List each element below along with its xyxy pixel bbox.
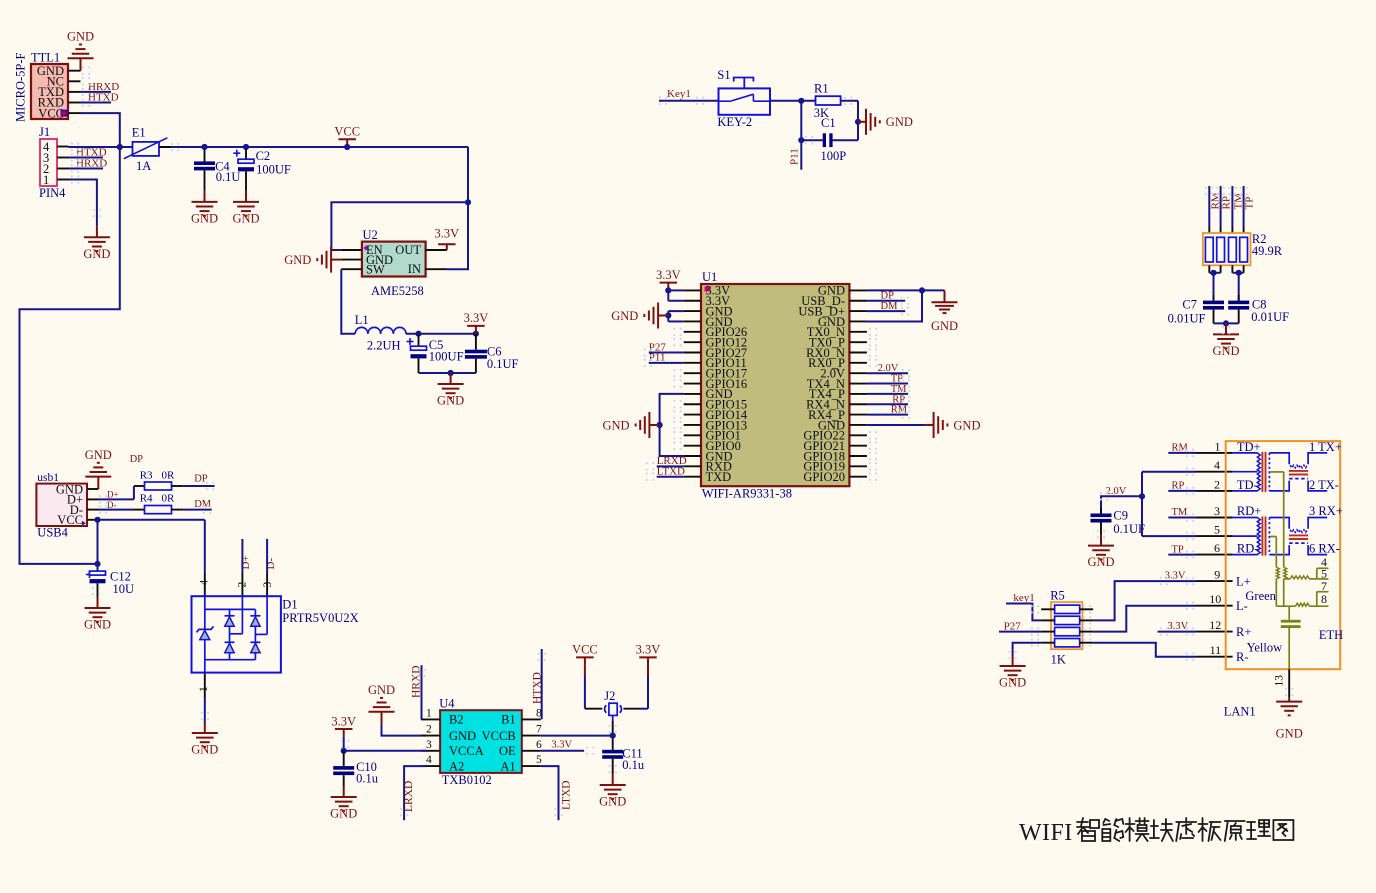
capacitor C11 0.1u: [602, 746, 645, 774]
svg-text:12: 12: [1209, 618, 1221, 632]
wire RP: [867, 403, 908, 405]
net label RP: [1221, 196, 1233, 209]
wire HTXD to U4.B1: [541, 649, 543, 719]
pins LAN1 left: [1196, 453, 1233, 657]
junction U1 gnd: [665, 312, 671, 318]
connector usb1 USB4: [36, 472, 87, 540]
svg-text:GND: GND: [999, 676, 1026, 690]
wire Key1 to S1: [659, 97, 719, 106]
svg-text:OUT: OUT: [395, 243, 421, 257]
connector J1 PIN4: [39, 125, 66, 200]
wire GND to U1 pins 11,17: [660, 394, 684, 456]
LAN internal termination network: [1270, 472, 1328, 669]
svg-text:VCC: VCC: [38, 106, 64, 120]
transformer T1 (TD): [1233, 440, 1328, 492]
ground symbol (C4): [191, 191, 218, 226]
svg-text:2: 2: [426, 724, 432, 736]
power symbol 3.3V (U1): [656, 268, 681, 291]
svg-text:D+: D+: [107, 490, 119, 500]
inductor L1 2.2UH: [355, 313, 406, 353]
net label TP: [1244, 197, 1256, 210]
ground symbol (C10): [330, 786, 357, 821]
svg-text:0.01UF: 0.01UF: [1168, 312, 1206, 326]
svg-text:GND: GND: [603, 418, 630, 432]
net label TM: [891, 384, 907, 395]
diode array D1 PRTR5V0U2X: [192, 596, 359, 672]
junction S1/R1/C1: [798, 98, 804, 104]
junction 2.0V: [1139, 493, 1145, 499]
svg-text:0R: 0R: [162, 469, 176, 481]
wire D1 pin1 to ground: [204, 697, 206, 722]
power symbol VCC: [334, 125, 360, 148]
wire usb D+ to R3: [99, 486, 145, 499]
svg-text:GND: GND: [599, 795, 626, 809]
svg-text:D-: D-: [107, 500, 117, 510]
IC U4 TXB0102: [439, 697, 522, 788]
svg-text:TD-: TD-: [1237, 478, 1258, 492]
svg-text:WIFI: WIFI: [1019, 820, 1073, 846]
wire DP (U1 USB_D-): [867, 300, 905, 302]
svg-text:TXB0102: TXB0102: [442, 773, 492, 787]
ground symbol (D1): [191, 722, 218, 757]
svg-text:Yellow: Yellow: [1247, 640, 1283, 654]
net label D+ (small): [107, 490, 119, 500]
svg-text:3.3V: 3.3V: [1168, 621, 1189, 632]
junction J2/VCCB: [610, 733, 616, 739]
pins U1 left: [684, 290, 701, 476]
net label 3.3V (L+): [1165, 571, 1186, 582]
wire R5 row4 to LAN pin11: [1093, 643, 1196, 657]
junction gnd bus: [1223, 320, 1229, 326]
wire RM: [867, 414, 908, 416]
svg-text:3: 3: [426, 739, 432, 751]
svg-text:A2: A2: [449, 759, 464, 773]
wire R5 row3 to LAN pin10: [1093, 606, 1196, 632]
net label RM: [1209, 192, 1221, 209]
wire rail to U2.IN and U2.EN: [331, 147, 468, 269]
power symbol 3.3V (LDO out): [464, 311, 489, 334]
svg-text:WIFI-AR9331-38: WIFI-AR9331-38: [702, 487, 792, 501]
svg-text:HTXD: HTXD: [88, 91, 119, 103]
svg-text:IN: IN: [408, 262, 421, 276]
junction R2 pair1: [1210, 270, 1216, 276]
junction gnd bus: [448, 370, 454, 376]
net label DP: [881, 291, 895, 302]
wire L1 to C5/C6/3.3V: [406, 333, 476, 335]
svg-text:HRXD: HRXD: [76, 157, 107, 169]
wire LTXD (U1 TXD): [657, 476, 684, 478]
svg-text:C7: C7: [1182, 298, 1197, 312]
svg-text:DP: DP: [130, 454, 144, 465]
svg-text:S1: S1: [717, 68, 730, 82]
svg-text:C1: C1: [821, 116, 836, 130]
svg-text:3.3V: 3.3V: [434, 227, 459, 241]
wire HTXD (TTL1 RXD): [81, 98, 112, 107]
svg-text:0.1u: 0.1u: [356, 771, 379, 785]
net label HRXD: [76, 157, 107, 169]
svg-text:0.1u: 0.1u: [622, 758, 645, 772]
svg-text:3.3V: 3.3V: [331, 714, 356, 728]
net label LRXD: [403, 781, 415, 812]
ground symbol (J1.1): [83, 226, 110, 261]
net label HTXD: [76, 146, 107, 158]
wire P27 (U1 GPIO27): [649, 352, 684, 354]
wire HRXD (TTL1 TXD): [81, 88, 112, 97]
svg-text:3.3V: 3.3V: [551, 740, 572, 751]
svg-text:TD+: TD+: [1237, 440, 1261, 454]
ground symbol (R5): [999, 655, 1026, 690]
svg-text:A1: A1: [500, 759, 515, 773]
net label HRXD (U4): [411, 665, 423, 698]
svg-text:R-: R-: [1236, 650, 1249, 664]
svg-text:3.3V: 3.3V: [1165, 571, 1186, 582]
capacitor C6 0.1UF: [465, 334, 519, 373]
svg-text:L-: L-: [1236, 599, 1248, 613]
svg-text:C2: C2: [256, 149, 271, 163]
net label HTXD: [88, 91, 119, 103]
svg-text:LAN1: LAN1: [1224, 705, 1256, 719]
transformer T2 (RD): [1233, 504, 1328, 555]
svg-text:key1: key1: [1013, 592, 1034, 604]
wires below R2: [1209, 265, 1243, 300]
capacitor C10 0.1u: [333, 751, 379, 786]
wire U4.GND: [382, 724, 427, 736]
net label P27 (R5): [1004, 621, 1022, 633]
wire TP: [867, 383, 908, 385]
svg-text:R4: R4: [140, 492, 153, 504]
resistor R3 0R: [140, 469, 175, 490]
wire 3.3V OE: [541, 750, 584, 752]
svg-text:GND: GND: [931, 319, 958, 333]
svg-text:GND: GND: [67, 30, 94, 44]
svg-text:GND: GND: [437, 394, 464, 408]
pin numbers U4: [426, 707, 542, 766]
net label DM: [881, 301, 899, 312]
capacitor C2 100UF: [233, 147, 291, 191]
wire R5 row2 to LAN pin9: [1093, 581, 1196, 620]
LED section labels: [1236, 575, 1343, 664]
svg-text:LTXD: LTXD: [560, 780, 572, 810]
net label TP: [891, 374, 903, 385]
wire DP out: [172, 485, 215, 487]
wire J1.4 to VCC rail: [69, 143, 120, 152]
svg-text:U4: U4: [439, 697, 455, 711]
svg-text:1: 1: [1215, 439, 1221, 453]
junction right gnd: [919, 287, 925, 293]
svg-text:2.2UH: 2.2UH: [367, 339, 401, 353]
wire usb VCC to D1 pin4: [98, 520, 205, 573]
svg-text:RM: RM: [1209, 192, 1221, 209]
wire U1 GND pin14: [867, 424, 926, 426]
pins U4: [421, 719, 541, 766]
svg-text:RD-: RD-: [1237, 542, 1259, 556]
junction R2 pair2: [1236, 270, 1242, 276]
svg-text:KEY-2: KEY-2: [717, 115, 752, 129]
svg-text:1: 1: [426, 707, 432, 719]
svg-text:2: 2: [1214, 477, 1220, 491]
resistor pack R5 1K: [1050, 588, 1082, 666]
wire 2.0V (U1): [867, 372, 908, 374]
svg-text:13: 13: [1274, 675, 1286, 687]
junction C5: [415, 331, 421, 337]
wire U1 GND pins 1,4 to ground: [867, 290, 945, 321]
net label DP: [194, 473, 208, 484]
net label P11: [789, 148, 801, 165]
svg-text:LRXD: LRXD: [403, 781, 415, 812]
ground symbol (usb1 GND): [85, 448, 112, 489]
net label D- (small): [107, 500, 117, 510]
wire DM out: [172, 509, 212, 511]
svg-text:J2: J2: [604, 689, 615, 703]
wire HRXD to U4.B2: [421, 665, 423, 719]
pins J1: [57, 147, 69, 180]
svg-text:2 TX-: 2 TX-: [1309, 478, 1339, 492]
wire S1 to R1: [770, 100, 816, 102]
net label DP (upper): [130, 454, 144, 465]
wire RP to LAN pin2: [1168, 490, 1196, 492]
svg-text:R+: R+: [1236, 625, 1251, 639]
IC U1 WIFI-AR9331-38: [701, 270, 849, 501]
svg-text:C9: C9: [1113, 508, 1128, 522]
svg-text:3: 3: [1214, 504, 1220, 518]
svg-text:GND: GND: [449, 729, 476, 743]
capacitor C12 10U: [86, 570, 134, 598]
net label TM: [1233, 193, 1245, 210]
resistor pack R2 49.9R: [1203, 232, 1283, 265]
junction gnd stem: [855, 119, 861, 125]
svg-text:VCC: VCC: [572, 643, 598, 657]
svg-text:GND: GND: [611, 309, 638, 323]
labels TX+ TX-: [1309, 440, 1342, 492]
net label D- (D1): [265, 558, 277, 570]
ground symbol (LAN pin13): [1276, 698, 1303, 741]
wire C5/C6 ground bus: [419, 372, 476, 374]
capacitor C9 0.1UF: [1091, 508, 1146, 536]
svg-text:GND: GND: [330, 807, 357, 821]
svg-text:3.3V: 3.3V: [464, 311, 489, 325]
net label RM (LAN): [1172, 443, 1189, 454]
net label RP (LAN): [1172, 481, 1185, 492]
svg-text:3 RX+: 3 RX+: [1309, 504, 1343, 518]
svg-text:1A: 1A: [136, 159, 151, 173]
wire RM to LAN pin1: [1168, 452, 1196, 454]
ground symbol (C7/C8): [1212, 323, 1239, 358]
wire VCC from TTL1 down left side to usb1: [20, 113, 120, 564]
power symbol 3.3V (C10): [331, 714, 356, 737]
svg-text:100UF: 100UF: [429, 349, 464, 363]
svg-text:8: 8: [536, 707, 542, 719]
labels RX+ RX-: [1309, 504, 1343, 555]
svg-text:VCC: VCC: [334, 125, 360, 139]
net label P27: [649, 341, 667, 353]
svg-text:E1: E1: [132, 126, 146, 140]
svg-text:GND: GND: [368, 683, 395, 697]
svg-text:TP: TP: [1244, 197, 1256, 210]
wires RM/RP/TM/TP into R2: [1209, 186, 1243, 237]
ground symbol (C9): [1087, 535, 1114, 570]
svg-text:3.3V: 3.3V: [636, 643, 661, 657]
wire R5 row4 to ground: [1013, 643, 1042, 655]
svg-text:J1: J1: [39, 125, 50, 139]
svg-text:P11: P11: [789, 148, 801, 165]
svg-text:GND: GND: [84, 618, 111, 632]
svg-text:ETH: ETH: [1319, 628, 1343, 642]
title text: [1019, 820, 1073, 846]
ground symbol (U1 top-left): [611, 303, 668, 329]
net label HTXD (U4): [531, 672, 543, 704]
svg-text:0.1U: 0.1U: [216, 170, 241, 184]
ground symbol (U1 bottom-left): [603, 412, 660, 438]
ground symbol (C12): [84, 597, 111, 632]
svg-text:8: 8: [1321, 592, 1327, 606]
svg-text:5: 5: [536, 754, 542, 766]
wire TM: [867, 393, 908, 395]
svg-text:DM: DM: [194, 499, 212, 510]
switch S1 KEY-2: [717, 68, 770, 129]
pins R5: [1041, 609, 1093, 642]
pins TTL1: [68, 71, 81, 113]
svg-text:6: 6: [536, 739, 542, 751]
pins usb1: [87, 489, 99, 520]
wire J1.1 to ground: [69, 180, 97, 227]
svg-text:GND: GND: [1087, 555, 1114, 569]
svg-text:U1: U1: [702, 270, 717, 284]
wire LTXD (U4.A1): [541, 766, 559, 820]
net label Key1: [667, 88, 691, 100]
svg-text:R1: R1: [814, 82, 829, 96]
wire DM (U1 USB_D+): [867, 310, 905, 312]
resistor R1 3K: [814, 82, 841, 121]
ground symbol (R1/C1): [858, 109, 913, 135]
svg-text:VCC: VCC: [57, 513, 83, 527]
wire P11 (U1 GPIO11): [649, 362, 684, 364]
svg-text:3.3V: 3.3V: [656, 268, 681, 282]
junction U2 feed: [465, 199, 471, 205]
wire R1 to gnd branch: [841, 97, 858, 141]
net label 3.3V (U4.OE): [551, 740, 572, 751]
fuse E1 1A: [124, 126, 179, 174]
capacitor C4 0.1U: [194, 147, 240, 191]
pin numbers D1: [198, 580, 274, 693]
svg-text:GND: GND: [83, 247, 110, 261]
svg-text:100UF: 100UF: [256, 162, 291, 176]
jumper J2: [604, 689, 621, 736]
net label LTXD: [560, 780, 572, 810]
ground symbol (C5/C6): [437, 373, 464, 408]
ground symbol (C2): [232, 191, 259, 226]
wire 2.0V to LAN pins 4,5: [1142, 472, 1196, 536]
svg-text:7: 7: [536, 724, 542, 736]
net label 2.0V: [878, 363, 899, 374]
net label LRXD: [657, 455, 687, 467]
svg-text:GND: GND: [85, 448, 112, 462]
svg-text:GND: GND: [284, 253, 311, 267]
wire 3.3V to U1 pins 1,2: [668, 290, 683, 300]
ground symbol (U1 top-right): [931, 290, 958, 333]
svg-text:GND: GND: [1276, 727, 1303, 741]
wire 3.3V to LAN pin12: [1158, 631, 1196, 633]
capacitor C5 100UF: [407, 334, 464, 373]
svg-text:11: 11: [1210, 643, 1222, 657]
svg-text:SW: SW: [366, 262, 385, 276]
svg-text:1: 1: [43, 173, 49, 187]
title CJK characters: [1077, 818, 1293, 841]
svg-text:0R: 0R: [162, 492, 176, 504]
ground symbol (U2.GND): [284, 247, 341, 273]
wire 3.3V to U4.VCCA: [344, 737, 427, 751]
junction C12: [94, 561, 100, 567]
pins D1: [205, 573, 267, 697]
svg-text:Green: Green: [1245, 589, 1276, 603]
net label 3.3V (R+): [1168, 621, 1189, 632]
svg-text:L1: L1: [355, 313, 369, 327]
junction C2/rail: [243, 144, 249, 150]
junction TTL1-VCC / rail: [117, 144, 123, 150]
junction 3.3V: [665, 287, 671, 293]
wire U2.SW down to L1: [341, 269, 355, 334]
connector TTL1 MICRO-5P-F: [14, 51, 68, 123]
ground symbol (U1 right): [926, 412, 981, 438]
svg-text:D1: D1: [282, 598, 297, 612]
net label key1: [1013, 592, 1034, 604]
svg-text:B2: B2: [449, 713, 464, 727]
regulator U2 AME5258: [362, 228, 426, 298]
net label HRXD: [88, 81, 119, 93]
junction C1 left: [798, 137, 804, 143]
power symbol 3.3V (U2.OUT): [434, 227, 459, 250]
svg-text:Key1: Key1: [667, 88, 691, 100]
svg-text:6: 6: [1214, 541, 1220, 555]
svg-text:10U: 10U: [113, 582, 135, 596]
svg-text:PIN4: PIN4: [39, 186, 66, 200]
svg-text:VCCA: VCCA: [449, 744, 484, 758]
wire D1 pin2: [241, 539, 243, 573]
wire P11 stem: [800, 101, 802, 170]
wire 2.0V / C9: [1101, 496, 1142, 513]
junction C10: [341, 748, 347, 754]
svg-text:0.1UF: 0.1UF: [487, 357, 519, 371]
svg-text:9: 9: [1214, 568, 1220, 582]
wire U4.VCCB to C11: [541, 736, 613, 750]
svg-text:10: 10: [1209, 592, 1221, 606]
net label D+ (D1): [240, 555, 252, 569]
svg-text:R3: R3: [140, 469, 153, 481]
wire HRXD (J1.2): [69, 168, 104, 170]
net label RP: [892, 394, 905, 405]
svg-text:GPIO20: GPIO20: [803, 470, 845, 484]
junction VCC/rail: [344, 144, 350, 150]
power symbol 3.3V (J2): [636, 643, 661, 666]
svg-text:GND: GND: [1212, 344, 1239, 358]
pins U2: [341, 250, 447, 269]
wire P27 to R5: [999, 631, 1041, 633]
wire HTXD (J1.3): [69, 157, 104, 159]
power symbol VCC (J2): [572, 643, 598, 666]
svg-text:U2: U2: [363, 228, 378, 242]
wire LRXD (U4.A2): [404, 766, 427, 820]
svg-text:R5: R5: [1050, 588, 1065, 602]
net label TP (LAN): [1172, 544, 1184, 555]
wire TP to LAN pin6: [1168, 554, 1196, 556]
svg-text:AME5258: AME5258: [371, 284, 424, 298]
svg-text:49.9R: 49.9R: [1252, 244, 1283, 258]
svg-text:MICRO-5P-F: MICRO-5P-F: [14, 52, 28, 122]
svg-text:0.01UF: 0.01UF: [1251, 310, 1289, 324]
svg-text:GND: GND: [191, 212, 218, 226]
junction usb VCC: [94, 517, 100, 523]
wire GND to U1 pins 3,4: [668, 311, 683, 321]
wire C7/C8 gnd bus: [1214, 322, 1239, 324]
